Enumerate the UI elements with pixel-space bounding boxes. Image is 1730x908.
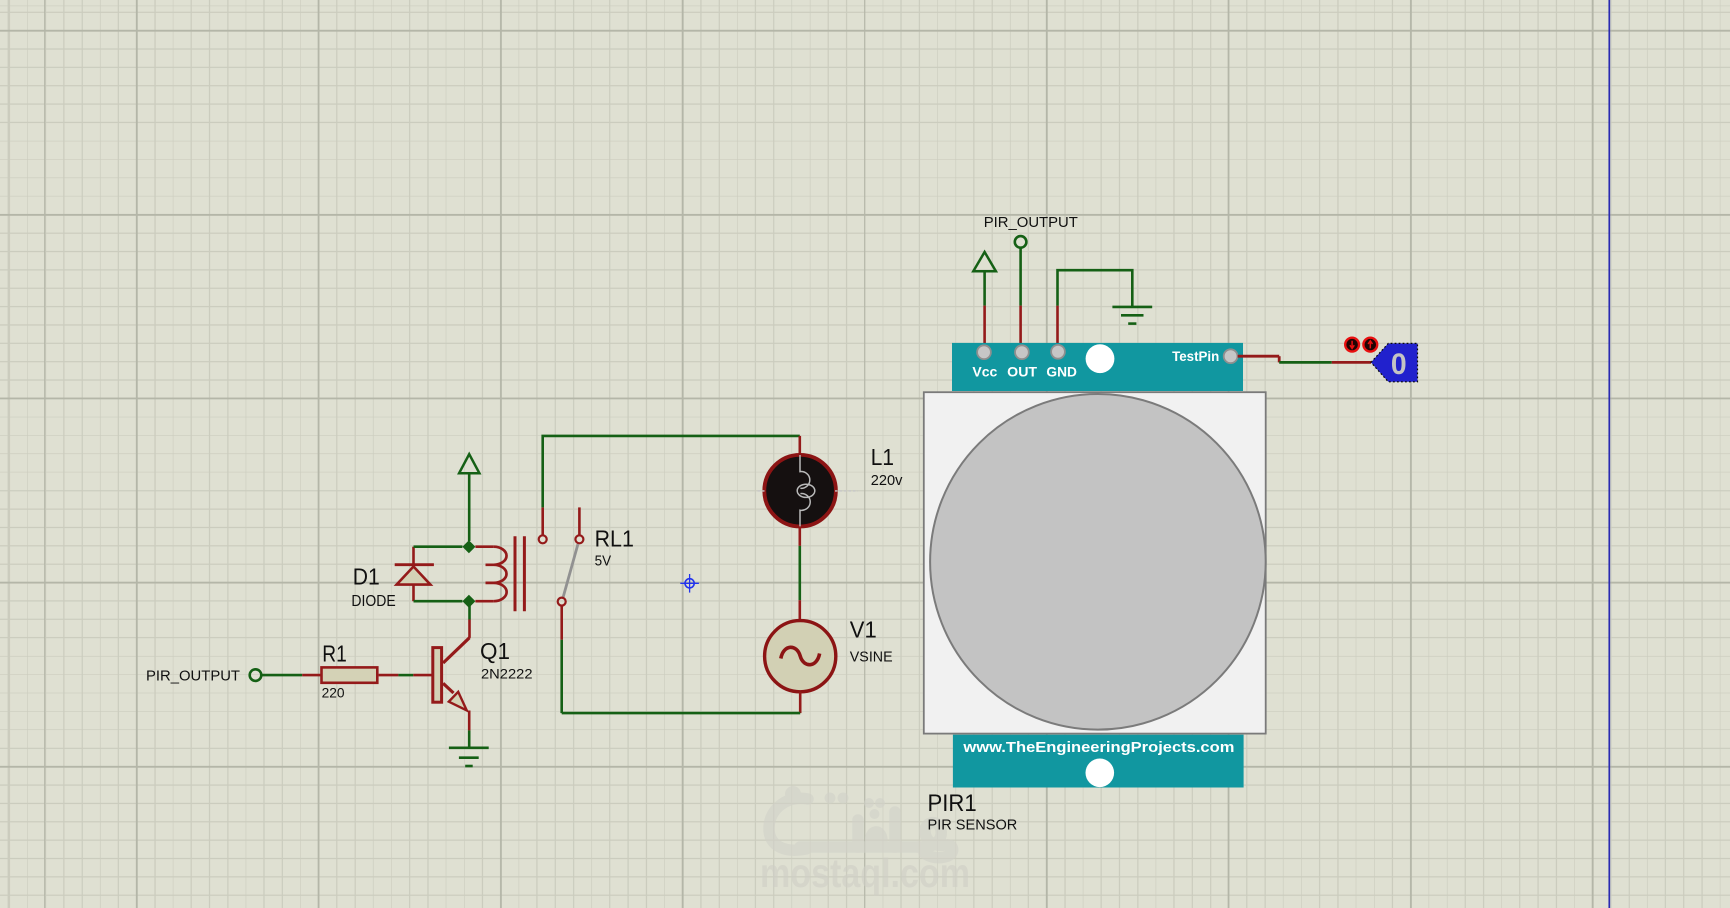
wire collector to node — [468, 620, 471, 638]
relay switch lever — [563, 544, 578, 597]
svg-text:PIR SENSOR: PIR SENSOR — [928, 816, 1018, 833]
svg-text:0: 0 — [1391, 348, 1407, 381]
svg-text:PIR_OUTPUT: PIR_OUTPUT — [984, 214, 1078, 231]
node B (coil bottom junction) — [462, 595, 475, 608]
svg-text:PIR1: PIR1 — [928, 790, 977, 817]
svg-text:mostaql.com: mostaql.com — [760, 850, 970, 896]
svg-text:R1: R1 — [322, 641, 347, 667]
probe edge indicator (rising) — [1363, 338, 1377, 352]
pin GND — [1051, 345, 1065, 359]
ground (emitter) — [449, 748, 489, 766]
wire terminal to R1 — [262, 674, 302, 677]
source V1 VSINE — [765, 617, 893, 692]
svg-text:220v: 220v — [871, 472, 903, 489]
svg-text:220: 220 — [322, 685, 345, 701]
lamp L1 — [758, 436, 903, 527]
svg-text:2N2222: 2N2222 — [481, 665, 533, 681]
svg-text:V1: V1 — [850, 617, 877, 643]
wire diode bottom to node B — [414, 600, 463, 603]
wire lamp to V1 — [798, 528, 801, 546]
diode D1 — [351, 547, 434, 611]
crosshair marker — [680, 574, 699, 593]
PIR1 dome lens — [930, 394, 1266, 730]
logic probe 0 — [1371, 343, 1418, 381]
transistor Q1 — [433, 638, 533, 711]
wire bottom return — [562, 712, 801, 715]
watermark mostaql — [760, 786, 970, 896]
svg-text:Q1: Q1 — [480, 638, 510, 664]
power arrow (left) — [459, 454, 479, 473]
relay core — [514, 536, 517, 611]
pin OUT — [1015, 345, 1029, 359]
relay contact left pin — [541, 507, 544, 534]
relay pole — [558, 598, 566, 606]
wire TestPin to probe — [1238, 355, 1280, 358]
wire emitter to ground — [468, 711, 471, 731]
svg-text:VSINE: VSINE — [850, 650, 893, 666]
relay RL1 coil — [475, 547, 506, 602]
svg-text:OUT: OUT — [1007, 365, 1038, 380]
PIR1 body — [924, 392, 1266, 733]
svg-text:Vcc: Vcc — [972, 365, 997, 380]
node A (coil top junction) — [462, 540, 475, 553]
resistor R1 — [322, 667, 378, 682]
svg-text:RL1: RL1 — [595, 526, 634, 552]
relay contact right pin — [578, 507, 581, 534]
svg-text:L1: L1 — [871, 444, 894, 470]
PIR1 footer bar — [953, 735, 1244, 788]
wire relay left contact up and to lamp — [543, 436, 800, 508]
svg-text:www.TheEngineeringProjects.com: www.TheEngineeringProjects.com — [962, 740, 1234, 756]
pin Vcc — [977, 345, 991, 359]
wire R1 to Q1 base — [379, 674, 399, 677]
PIR1 module header bar — [952, 343, 1243, 391]
power arrow (top) — [973, 252, 996, 271]
pin TestPin — [1224, 349, 1238, 363]
svg-text:5V: 5V — [595, 554, 612, 570]
pin labels — [972, 349, 1219, 380]
svg-text:D1: D1 — [353, 563, 380, 589]
svg-text:TestPin: TestPin — [1172, 349, 1219, 364]
footer hole — [1086, 759, 1115, 788]
wire GND pin — [1056, 306, 1059, 347]
wire Vcc pin — [983, 306, 986, 347]
svg-text:GND: GND — [1046, 365, 1077, 380]
wire OUT pin — [1019, 248, 1022, 306]
sheet border — [1608, 0, 1610, 908]
svg-text:DIODE: DIODE — [351, 593, 395, 610]
svg-text:PIR_OUTPUT: PIR_OUTPUT — [146, 667, 240, 684]
wire V1 bottom — [799, 692, 802, 713]
ground (top) — [1112, 307, 1152, 324]
wire diode top to node A — [414, 545, 463, 548]
probe edge indicator (falling) — [1345, 338, 1359, 352]
header hole — [1086, 344, 1115, 373]
